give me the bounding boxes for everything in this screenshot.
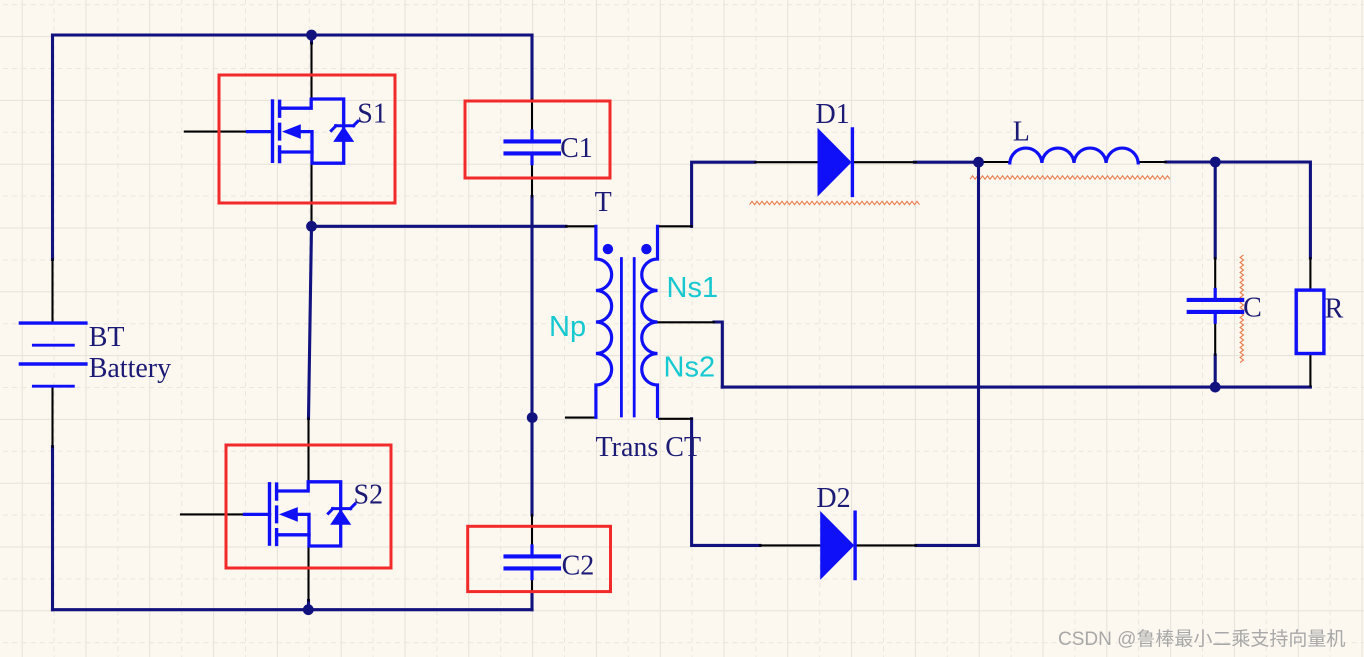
svg-text:C: C — [1243, 292, 1262, 323]
svg-text:Ns2: Ns2 — [664, 352, 716, 384]
svg-text:R: R — [1325, 293, 1344, 324]
svg-text:T: T — [595, 187, 612, 218]
svg-text:S2: S2 — [354, 480, 384, 511]
svg-text:Ns1: Ns1 — [667, 272, 719, 304]
svg-text:L: L — [1013, 116, 1030, 147]
svg-text:C2: C2 — [562, 551, 595, 582]
svg-text:Np: Np — [549, 311, 586, 343]
svg-text:D1: D1 — [816, 99, 850, 130]
svg-text:Trans CT: Trans CT — [596, 432, 702, 463]
svg-text:C1: C1 — [560, 133, 593, 164]
svg-text:CSDN @鲁棒最小二乘支持向量机: CSDN @鲁棒最小二乘支持向量机 — [1058, 628, 1345, 650]
svg-text:Battery: Battery — [89, 353, 171, 384]
svg-text:D2: D2 — [816, 483, 850, 514]
svg-text:BT: BT — [89, 322, 125, 353]
svg-text:S1: S1 — [357, 98, 387, 129]
